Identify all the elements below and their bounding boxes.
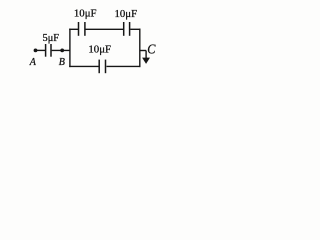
top rail wire right segment — [130, 28, 140, 30]
wire node C down — [145, 51, 147, 60]
capacitor C2 10uF left plate — [78, 22, 80, 36]
svg-text:10μF: 10μF — [88, 43, 111, 55]
wire A to C1 — [36, 49, 46, 51]
capacitor C4 10uF left plate — [98, 60, 100, 74]
svg-text:C: C — [147, 43, 156, 58]
svg-text:B: B — [59, 57, 65, 68]
svg-text:A: A — [29, 57, 37, 68]
capacitor C3 10uF left plate — [123, 22, 125, 36]
node A — [34, 49, 38, 53]
left rail wire — [69, 29, 71, 68]
capacitor C3 10uF right plate — [129, 22, 131, 36]
wire stub to node C — [140, 50, 146, 52]
svg-text:10μF: 10μF — [74, 8, 97, 20]
node B — [60, 49, 64, 53]
top rail wire left segment — [69, 28, 78, 30]
capacitor C4 10uF right plate — [105, 60, 107, 74]
bottom rail wire right segment — [107, 65, 141, 67]
bottom rail wire left segment — [69, 65, 99, 67]
svg-text:10μF: 10μF — [115, 8, 138, 20]
capacitor C2 10uF right plate — [84, 22, 86, 36]
arrow at C — [142, 58, 150, 64]
capacitor C1 5uF right plate — [50, 44, 52, 57]
top rail wire middle segment — [86, 28, 124, 30]
capacitor C1 5uF left plate — [45, 44, 47, 57]
wire C1 to B and left rail — [52, 49, 70, 51]
svg-text:5μF: 5μF — [43, 33, 60, 44]
right rail wire — [139, 29, 141, 68]
